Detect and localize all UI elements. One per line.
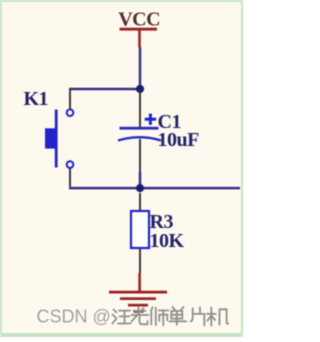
pin K1.1 (dark) — [69, 88, 71, 109]
ground bar 2 — [120, 297, 156, 300]
pin C1 bottom (dark) — [139, 139, 141, 173]
schematic sheet background — [2, 2, 241, 333]
capacitor C1 top plate — [120, 127, 159, 130]
watermark CJK glyph 3 — [151, 307, 168, 325]
power symbol VCC (red bar and stub) — [120, 28, 158, 48]
svg-text:K1: K1 — [24, 88, 49, 110]
pin C1 top (dark) — [139, 92, 141, 127]
svg-text:CSDN @: CSDN @ — [37, 307, 111, 327]
ground bar 3 — [128, 304, 148, 307]
resistor R3 body — [131, 211, 149, 248]
wire bottom horizontal (button to right edge) — [69, 187, 240, 190]
capacitor C1 curved plate — [118, 137, 161, 140]
wire C1 to bottom junction — [139, 172, 142, 188]
pushbutton K1 terminal circle top — [67, 109, 74, 116]
watermark CJK glyph 5 — [191, 307, 205, 325]
svg-text:10uF: 10uF — [158, 129, 200, 151]
ground bar 4 — [134, 310, 144, 313]
watermark CJK glyph 2 — [132, 307, 149, 325]
pin K1.2 (dark) — [69, 168, 71, 189]
watermark CJK glyph 6 — [207, 307, 229, 325]
pushbutton K1 actuator block — [45, 128, 55, 148]
node B junction dot — [136, 184, 144, 192]
node A junction dot — [136, 85, 144, 93]
ground symbol stub (red) — [138, 273, 141, 291]
ground bar 1 — [109, 291, 167, 294]
svg-text:10K: 10K — [150, 230, 185, 252]
capacitor C1 plus mark — [145, 114, 157, 125]
watermark CJK glyph 4 — [170, 307, 187, 325]
wire VCC stub to top junction — [139, 47, 142, 89]
wire top horizontal (button to junction A) — [69, 88, 140, 91]
watermark CJK glyph 1 — [113, 310, 131, 324]
pin R3 bottom (dark) — [139, 248, 141, 274]
pin R3 top (dark) — [139, 193, 141, 212]
pushbutton K1 terminal circle bottom — [67, 161, 74, 168]
page background (green frame) — [0, 0, 243, 337]
svg-text:VCC: VCC — [118, 8, 160, 30]
pushbutton K1 contact bar — [55, 110, 58, 168]
